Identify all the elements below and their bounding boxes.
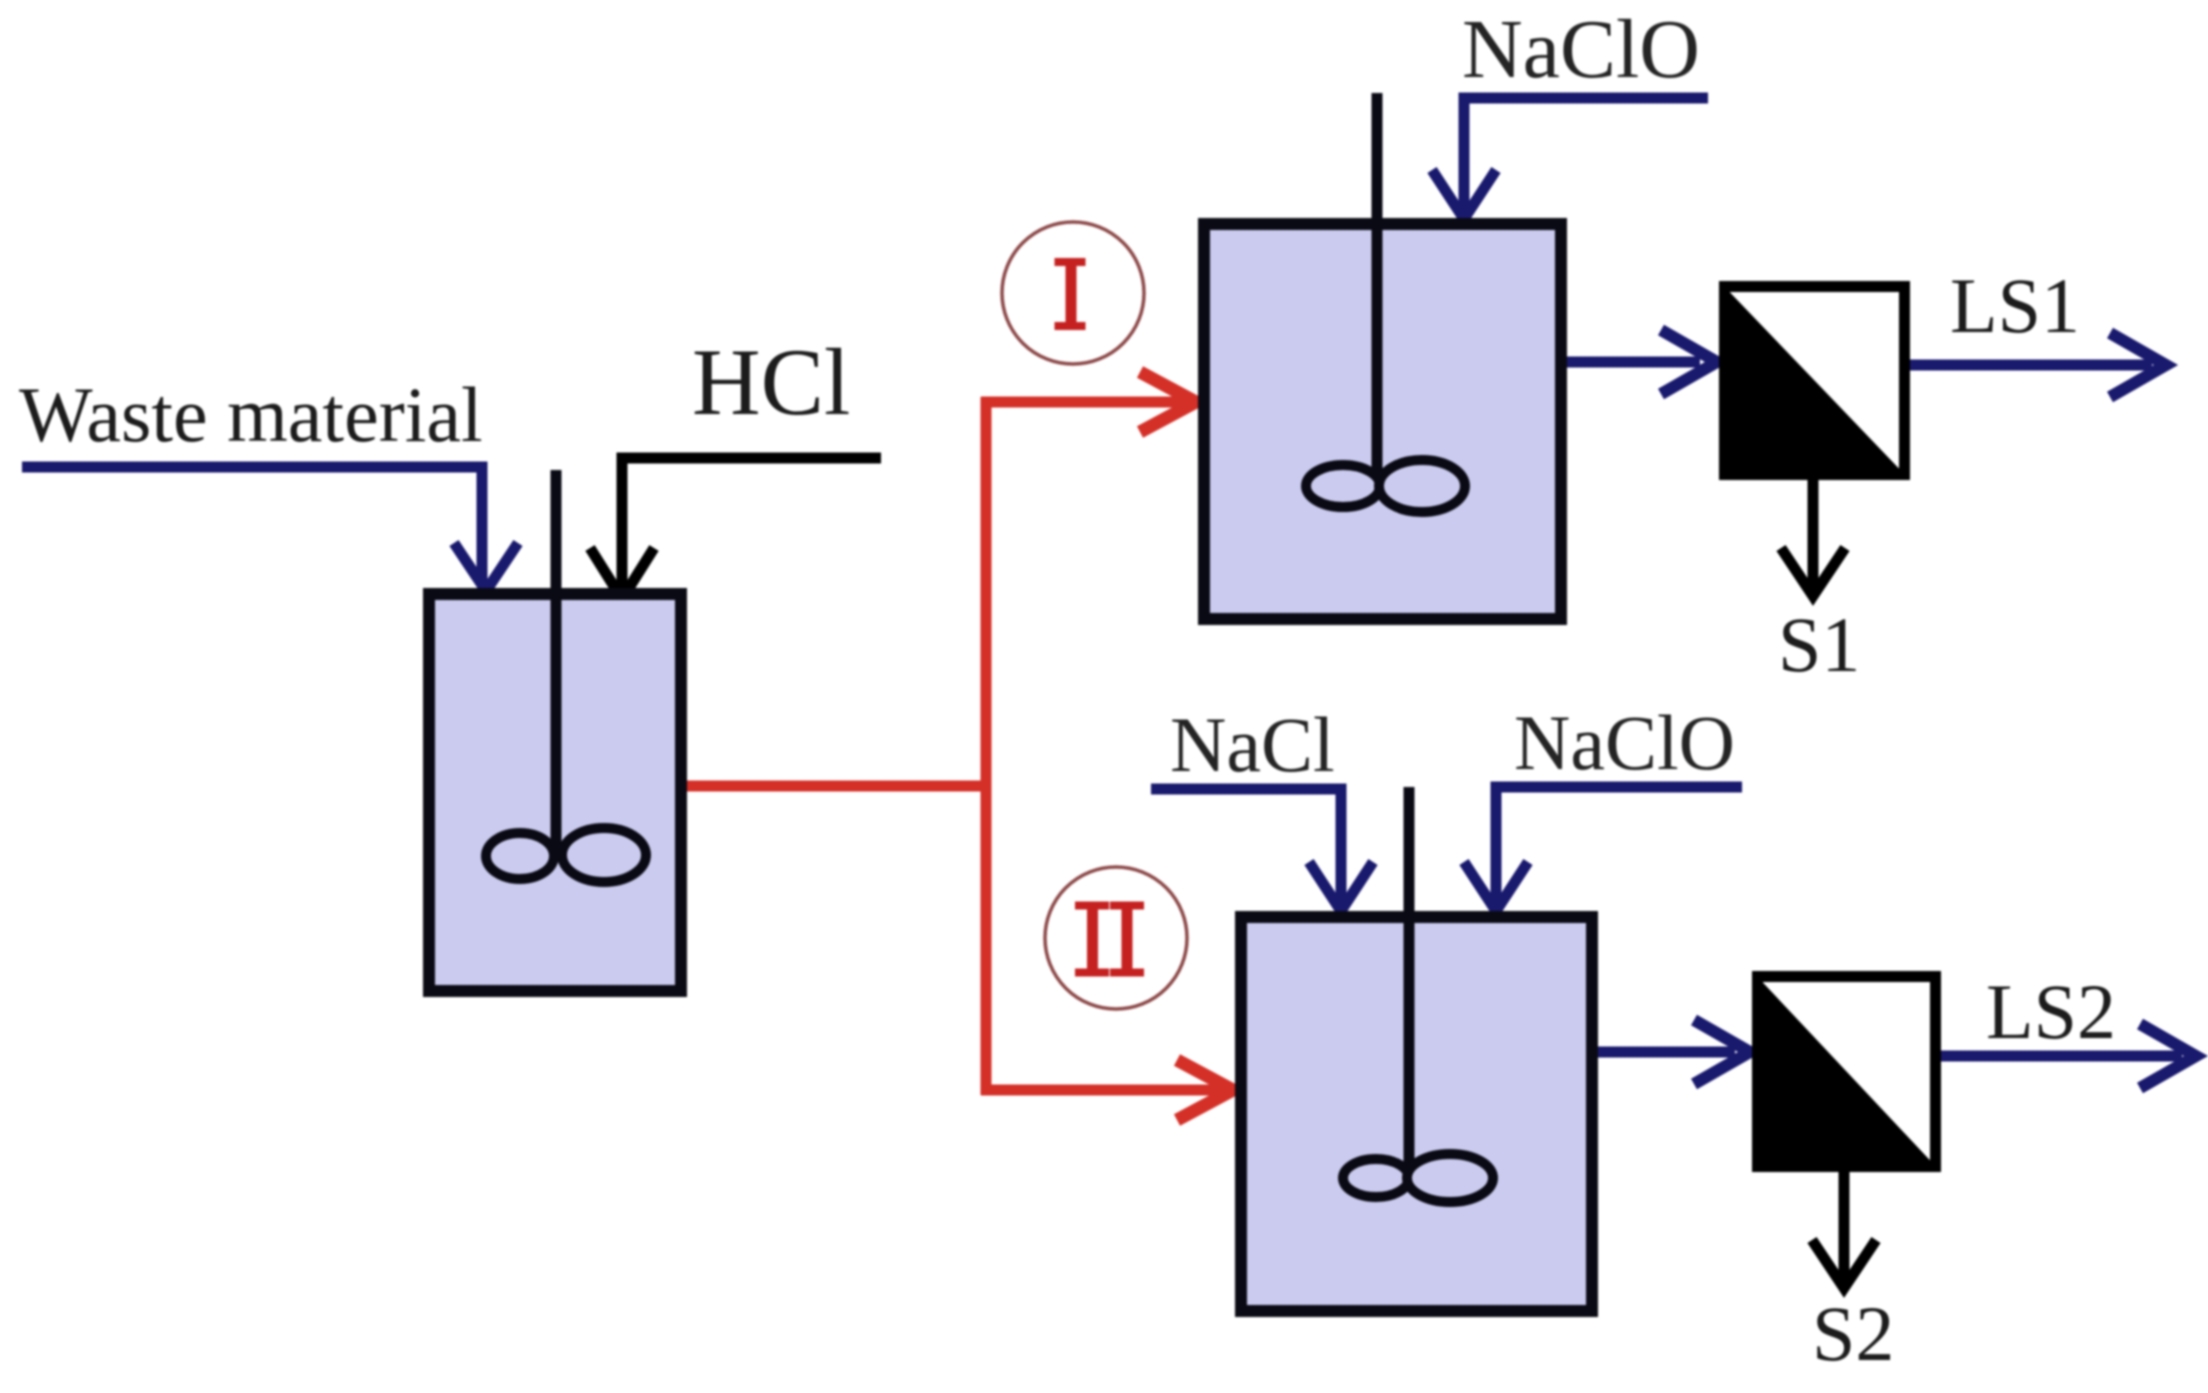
svg-text:S1: S1	[1778, 601, 1860, 688]
wire: LS1 product stream	[1910, 333, 2166, 397]
svg-text:LS2: LS2	[1986, 968, 2116, 1055]
wire: NaClO feed to R3	[1464, 787, 1742, 911]
wire: red product stream from R1	[687, 781, 992, 792]
reactor R2 stirrer shaft	[1372, 93, 1383, 486]
svg-text:LS1: LS1	[1950, 262, 2080, 349]
reactor R1 impeller	[486, 828, 646, 882]
reactor R1 shaft inside	[551, 600, 562, 858]
svg-text:NaClO: NaClO	[1514, 699, 1735, 786]
separator F1	[1719, 281, 1910, 480]
wire: NaClO feed to R2	[1432, 98, 1708, 219]
node: circle label I	[1002, 222, 1144, 364]
node: circle label II	[1045, 867, 1187, 1009]
wire: S1 solids stream	[1781, 480, 1845, 596]
reactor R1 stirrer shaft	[551, 470, 562, 858]
wire: waste material feed stream	[22, 467, 518, 591]
svg-text:Waste material: Waste material	[19, 371, 483, 458]
reactor R1 vessel	[429, 594, 681, 991]
separator F2	[1752, 971, 1941, 1172]
wire: HCl feed stream	[590, 458, 881, 599]
svg-text:NaClO: NaClO	[1462, 3, 1700, 96]
svg-text:HCl: HCl	[692, 329, 850, 435]
reactor R3 vessel	[1241, 917, 1592, 1311]
svg-text:S2: S2	[1812, 1290, 1894, 1377]
wire: S2 solids stream	[1812, 1172, 1876, 1288]
wire: red branch II arrow into R3	[981, 1060, 1233, 1120]
reactor R2 shaft inside	[1372, 230, 1383, 486]
reactor R3 impeller	[1343, 1154, 1493, 1202]
reactor R2 vessel	[1204, 224, 1561, 619]
wire: R3 outlet to separator F2	[1598, 1020, 1750, 1084]
reactor R2 impeller	[1306, 460, 1465, 512]
wire: NaCl feed to R3	[1151, 789, 1373, 911]
reactor R3 shaft inside	[1404, 923, 1415, 1178]
wire: R2 outlet to separator F1	[1567, 330, 1717, 394]
wire: red branch I arrow into R2	[981, 372, 1196, 432]
svg-text:NaCl: NaCl	[1170, 701, 1335, 788]
wire: LS2 product stream	[1941, 1024, 2196, 1088]
reactor R3 stirrer shaft	[1404, 787, 1415, 1178]
wire: red vertical split line	[981, 397, 992, 1095]
